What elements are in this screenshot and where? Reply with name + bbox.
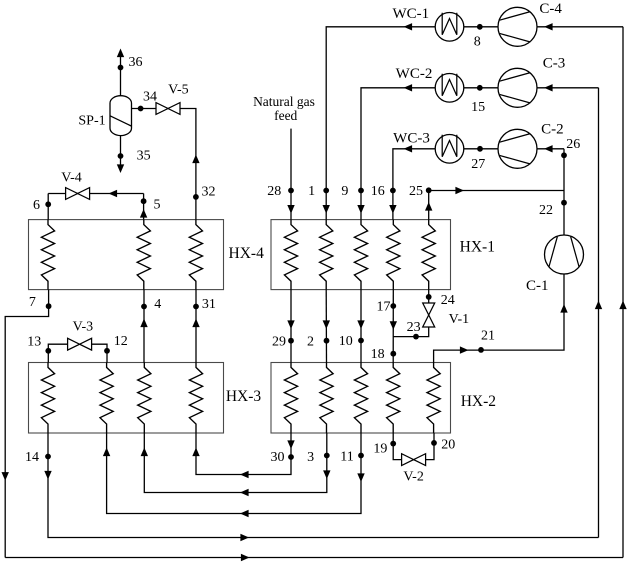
water cooler WC-1 xyxy=(435,12,464,41)
heat exchanger HX-1 shell xyxy=(271,220,451,290)
svg-text:1: 1 xyxy=(308,184,315,199)
wire stream 30 path: HX-2 coil 1 bottom to HX-3 coil 4 bottom xyxy=(192,433,294,478)
node 3 xyxy=(324,453,330,459)
compressor C-1 xyxy=(545,235,584,274)
HX-1 coil 2 xyxy=(320,220,333,290)
wire right riser to C-4 (up from bottom line) xyxy=(619,27,626,558)
svg-text:V-5: V-5 xyxy=(168,82,189,97)
node 10 xyxy=(358,338,364,344)
node 5 xyxy=(141,198,147,204)
node 21 xyxy=(478,347,484,353)
svg-text:8: 8 xyxy=(474,34,481,49)
HX-1 coil 3 xyxy=(354,220,367,290)
svg-text:C-4: C-4 xyxy=(539,1,562,17)
node 14 xyxy=(45,454,51,460)
svg-text:21: 21 xyxy=(481,329,495,344)
HX-1 coil 5 xyxy=(422,220,435,290)
node 9 xyxy=(358,188,364,194)
svg-text:31: 31 xyxy=(202,297,216,312)
node 32 xyxy=(193,194,199,200)
wire stream 36: SP-1 vapour out xyxy=(117,49,124,96)
svg-text:SP-1: SP-1 xyxy=(78,114,105,129)
node 19 xyxy=(390,441,396,447)
compressor C-2 xyxy=(498,129,537,168)
node 7 xyxy=(46,303,52,309)
svg-text:WC-2: WC-2 xyxy=(396,66,433,82)
svg-text:25: 25 xyxy=(409,184,423,199)
label Natural gas feed xyxy=(253,94,315,123)
wire stream 14 bottom line xyxy=(44,433,598,541)
svg-text:15: 15 xyxy=(471,100,485,115)
svg-text:29: 29 xyxy=(272,334,286,349)
svg-text:HX-3: HX-3 xyxy=(226,388,262,405)
node 13 xyxy=(45,348,51,354)
svg-text:27: 27 xyxy=(471,157,485,172)
svg-text:13: 13 xyxy=(27,334,41,349)
compressor C-3 xyxy=(498,68,537,107)
svg-text:28: 28 xyxy=(267,184,281,199)
node 31 xyxy=(193,304,199,310)
svg-text:20: 20 xyxy=(441,437,455,452)
node 2 xyxy=(324,338,330,344)
water cooler WC-3 xyxy=(435,135,464,164)
wire node 7 down the left edge xyxy=(2,290,49,558)
heat exchanger HX-2 shell xyxy=(271,363,451,434)
HX-2 coil 3 xyxy=(354,363,367,434)
node 29 xyxy=(288,338,294,344)
wire stream 3 path: HX-2 coil 2 bottom to HX-3 coil 3 bottom xyxy=(141,433,331,496)
wire stream 32: HX-4 coil 3 top up to V-5 xyxy=(180,109,200,220)
HX-3 coil 4 xyxy=(189,363,202,434)
node 36 xyxy=(118,65,124,71)
svg-text:WC-3: WC-3 xyxy=(393,131,430,147)
svg-text:19: 19 xyxy=(373,442,387,457)
node 18 xyxy=(390,351,396,357)
HX-1 coil 1 xyxy=(284,220,297,290)
svg-text:WC-1: WC-1 xyxy=(392,6,429,22)
valve V-4 xyxy=(66,188,90,200)
valve V-2 xyxy=(402,454,426,466)
svg-text:14: 14 xyxy=(25,450,39,465)
svg-text:22: 22 xyxy=(539,203,553,218)
HX-2 coil 5 xyxy=(427,363,440,434)
HX-3 coil 2 xyxy=(100,363,113,434)
node 1 xyxy=(323,188,329,194)
wire stream 4: HX-3 coil 3 top to HX-4 coil 2 bottom xyxy=(140,290,147,363)
node 20 xyxy=(431,440,437,446)
svg-text:V-2: V-2 xyxy=(403,469,424,484)
water cooler WC-2 xyxy=(435,74,464,103)
node 28 xyxy=(288,188,294,194)
wire stream 14 riser up to C-3 xyxy=(595,88,602,538)
wire node 25 line to riser xyxy=(425,187,564,220)
HX-1 coil 4 xyxy=(387,220,400,290)
wire C-2 to WC-3 xyxy=(464,148,498,150)
wire C-3 to WC-2 xyxy=(464,87,498,89)
svg-text:24: 24 xyxy=(441,293,455,308)
svg-text:V-1: V-1 xyxy=(449,312,470,327)
wire stream 35: SP-1 liquid out xyxy=(117,136,124,173)
svg-text:V-4: V-4 xyxy=(61,170,82,185)
wire WC-3 outlet to node 16 into HX-1 xyxy=(389,145,435,220)
wire HX-4 coil 2 top to node 5 xyxy=(140,194,147,220)
svg-text:10: 10 xyxy=(339,334,353,349)
wire stream 11 path: HX-2 coil 3 bottom to HX-3 coil 2 bottom xyxy=(103,433,365,517)
wire stream 31: HX-3 coil 4 top to HX-4 coil 3 bottom xyxy=(192,290,199,363)
svg-text:30: 30 xyxy=(271,450,285,465)
svg-text:12: 12 xyxy=(114,334,128,349)
node 8 xyxy=(477,24,483,30)
wire V-2 line node 19 to node 20 xyxy=(393,433,434,460)
wire WC-2 outlet to node 9 into HX-1 xyxy=(357,84,435,220)
wire stream 29: HX-1 coil 1 bottom to HX-2 coil 1 top xyxy=(287,290,294,363)
svg-text:32: 32 xyxy=(202,185,216,200)
svg-text:HX-2: HX-2 xyxy=(461,393,496,410)
compressor C-4 xyxy=(498,7,537,46)
wire stream 10: HX-1 coil 3 bottom to HX-2 coil 3 top xyxy=(357,290,364,363)
svg-text:V-3: V-3 xyxy=(73,320,94,335)
node 22 xyxy=(561,200,567,206)
wire natural gas feed into HX-1 coil 1 xyxy=(287,129,294,220)
svg-text:16: 16 xyxy=(371,184,385,199)
svg-text:C-1: C-1 xyxy=(526,278,549,294)
svg-text:35: 35 xyxy=(137,149,151,164)
HX-4 coil 1 xyxy=(41,220,54,290)
node 24 xyxy=(426,294,432,300)
svg-text:11: 11 xyxy=(340,449,353,464)
svg-text:6: 6 xyxy=(33,198,40,213)
svg-text:C-3: C-3 xyxy=(543,56,566,72)
HX-2 coil 2 xyxy=(320,363,333,434)
node 23 xyxy=(413,334,419,340)
node 16 xyxy=(390,188,396,194)
wire V-1 branch from HX-1 coil 5 bottom to node 23 xyxy=(393,290,428,337)
heat exchanger HX-3 shell xyxy=(29,363,224,434)
wire WC-1 outlet to node 1 into HX-1 xyxy=(323,23,436,220)
HX-4 coil 3 xyxy=(189,220,202,290)
node 25 xyxy=(426,187,432,193)
svg-text:Natural gas: Natural gas xyxy=(253,94,315,109)
wire C-4 to WC-1 xyxy=(464,26,498,28)
node 35 xyxy=(118,153,124,159)
node 17 xyxy=(390,303,396,309)
svg-text:feed: feed xyxy=(274,108,297,123)
node 12 xyxy=(104,348,110,354)
svg-text:34: 34 xyxy=(143,90,157,105)
svg-text:26: 26 xyxy=(566,137,580,152)
HX-2 coil 4 xyxy=(387,363,400,434)
wire bottom return line (7 loop) xyxy=(5,554,623,561)
wire node 6 branch into HX-4 coil 1 xyxy=(47,194,49,220)
heat exchanger HX-4 shell xyxy=(29,220,224,290)
separator SP-1 xyxy=(110,96,132,136)
svg-text:36: 36 xyxy=(129,55,143,70)
svg-text:9: 9 xyxy=(341,184,348,199)
valve V-5 xyxy=(156,103,180,115)
svg-text:HX-1: HX-1 xyxy=(460,238,495,255)
svg-text:17: 17 xyxy=(377,299,391,314)
valve V-1 xyxy=(423,303,435,327)
node 4 xyxy=(141,304,147,310)
wire C-1 discharge riser (22 to 26) xyxy=(563,149,565,235)
wire V-3 line node 12 to node 13 xyxy=(48,344,107,362)
node 27 xyxy=(477,146,483,152)
svg-text:3: 3 xyxy=(307,450,314,465)
wire stream 2: HX-1 coil 2 bottom to HX-2 coil 2 top xyxy=(323,290,330,363)
wire stream 21 line to C-1 suction xyxy=(434,274,568,363)
valve V-3 xyxy=(68,338,92,350)
node 15 xyxy=(477,85,483,91)
HX-2 coil 1 xyxy=(284,363,297,434)
node 34 xyxy=(138,106,144,112)
svg-text:HX-4: HX-4 xyxy=(229,245,265,262)
wire C-3 suction from riser xyxy=(537,84,599,91)
svg-text:7: 7 xyxy=(29,295,36,310)
node 11 xyxy=(358,453,364,459)
HX-4 coil 2 xyxy=(137,220,150,290)
HX-3 coil 3 xyxy=(138,363,151,434)
svg-text:18: 18 xyxy=(371,347,385,362)
node 26 xyxy=(561,152,567,158)
svg-text:4: 4 xyxy=(154,297,161,312)
svg-text:C-2: C-2 xyxy=(541,122,564,138)
svg-text:2: 2 xyxy=(307,334,314,349)
node 30 xyxy=(288,454,294,460)
wire C-2 suction from node 26 xyxy=(537,145,564,152)
svg-text:5: 5 xyxy=(154,197,161,212)
svg-text:23: 23 xyxy=(407,320,421,335)
wire V-5 to SP-1 inlet nozzle 34 xyxy=(132,108,157,110)
wire stream 17-18: HX-1 coil 4 bottom to HX-2 coil 4 top xyxy=(390,290,397,363)
wire C-4 suction from right riser xyxy=(537,23,623,30)
node 6 xyxy=(45,201,51,207)
HX-3 coil 1 xyxy=(41,363,54,434)
wire V-4 line node 5 to node 6 xyxy=(48,190,143,197)
